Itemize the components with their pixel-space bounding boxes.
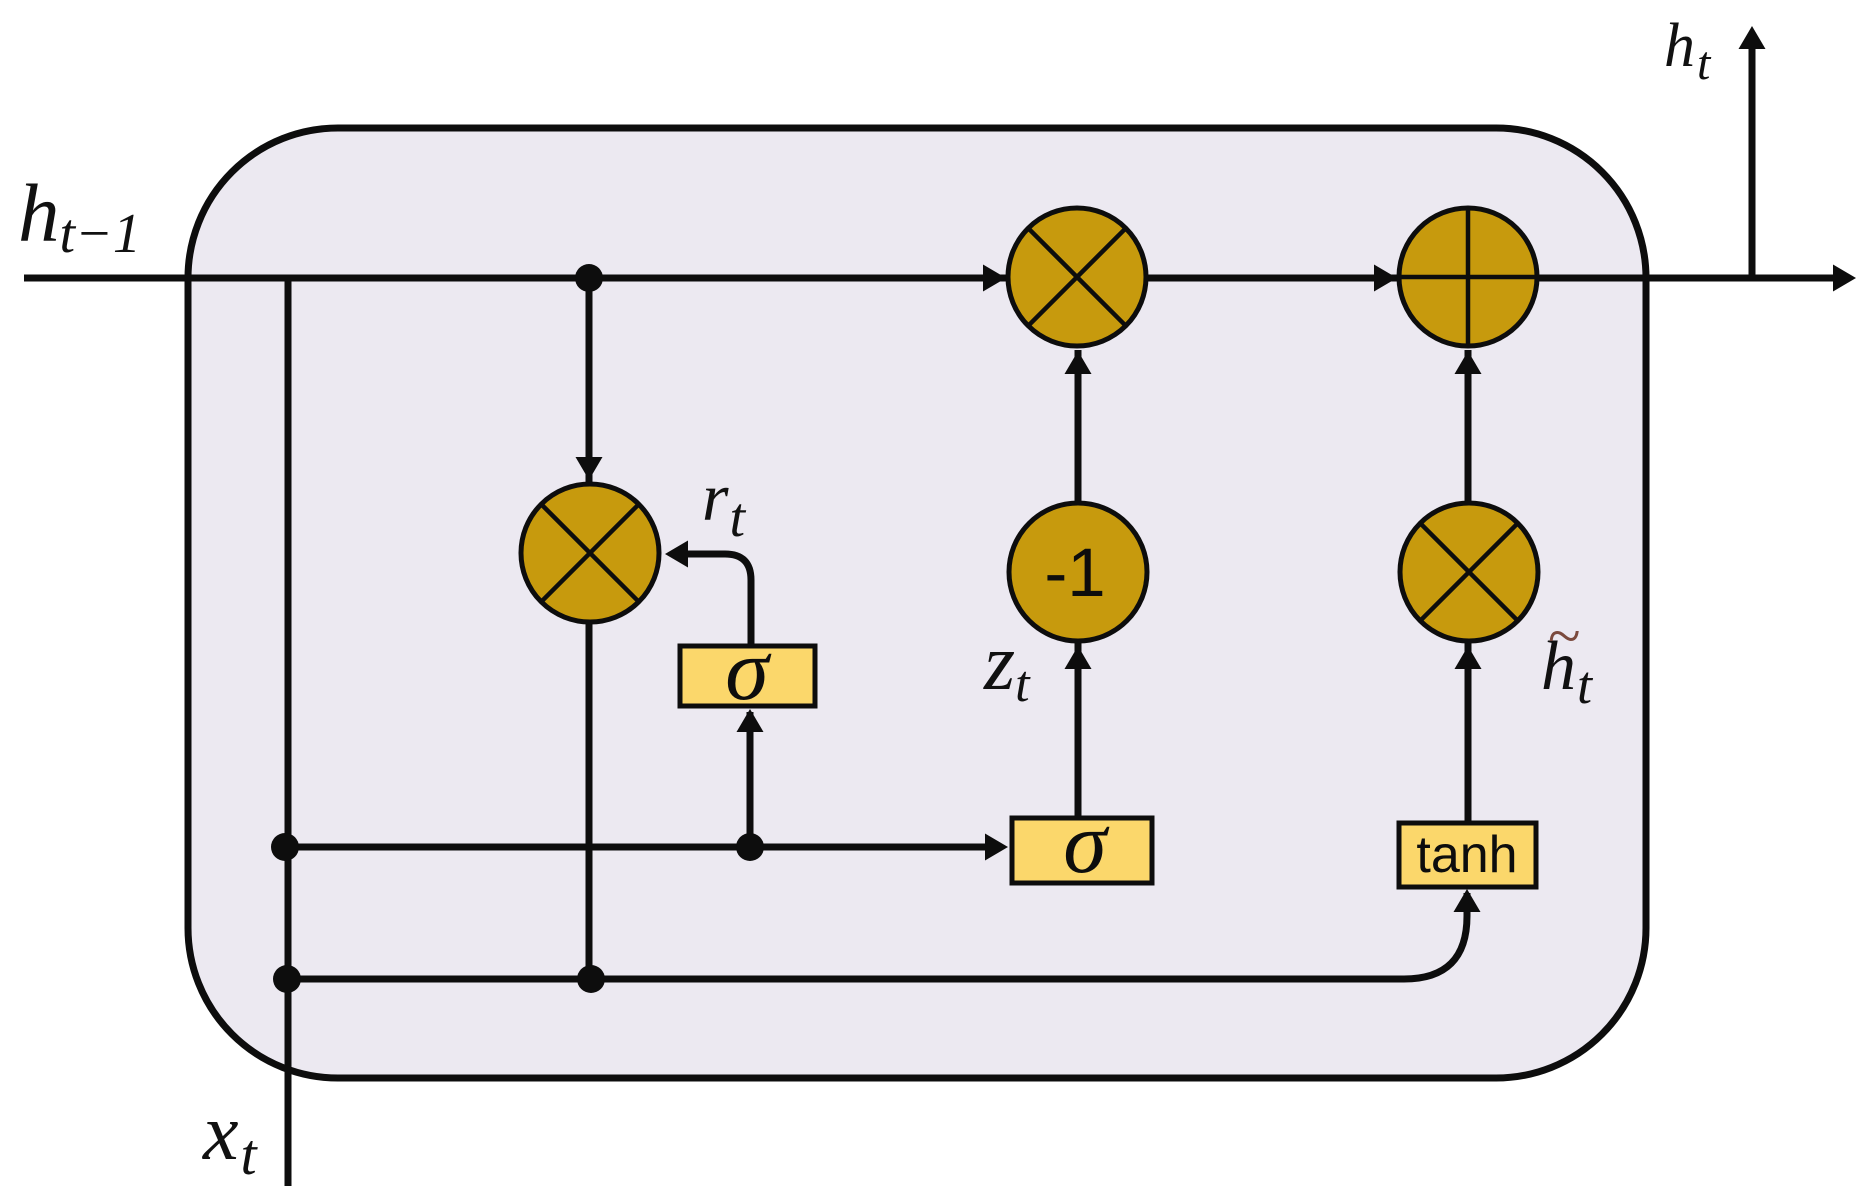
junction dot candidate bus at x(t) — [273, 965, 301, 993]
wire from tanh box up through candidate multiply node to add node — [1465, 350, 1472, 823]
GRU cell body (rounded container) — [188, 128, 1646, 1078]
top multiply node (update gate ⊗) — [1008, 208, 1146, 346]
wire gate bus y=847 from x(t) to sigma-z box — [285, 844, 986, 851]
arrowhead into reset-multiply node — [983, 265, 1006, 292]
arrowhead down into left multiply node — [576, 457, 603, 480]
arrowhead up into add node — [1455, 351, 1482, 374]
minus-one node — [1009, 503, 1147, 641]
arrowhead up into sigma-r box — [737, 709, 764, 732]
svg-text:-1: -1 — [1044, 534, 1105, 611]
svg-text:tanh: tanh — [1416, 826, 1517, 884]
arrowhead left into left multiply node — [665, 541, 688, 568]
wire r(t) loop from sigma-r box to left multiply node — [688, 554, 751, 646]
add node (⊕) — [1399, 208, 1537, 346]
sigma-z box — [1012, 795, 1152, 892]
svg-text:σ: σ — [725, 622, 772, 719]
wire from sigma-z box up through -1 node to top multiply node — [1075, 350, 1082, 818]
wire from h-line down to left multiply node and on to lower bus — [586, 278, 593, 979]
wire h(t-1) main horizontal line — [24, 275, 1835, 282]
arrowhead at right output end — [1833, 265, 1856, 292]
tanh box — [1399, 823, 1536, 887]
sigma-r box — [680, 622, 815, 719]
candidate multiply node (⊗ near h-tilde) — [1400, 503, 1538, 641]
svg-text:~: ~ — [1548, 603, 1580, 669]
arrowhead up at h(t) output — [1739, 26, 1766, 49]
left multiply node (reset gate ⊗) — [521, 484, 659, 622]
junction dot gate bus at sigma-r riser — [736, 833, 764, 861]
svg-text:σ: σ — [1063, 795, 1110, 892]
arrowhead into add node — [1374, 265, 1397, 292]
arrowhead up into -1 node — [1065, 646, 1092, 669]
junction dot on h-line — [575, 264, 603, 292]
arrowhead up into tanh box — [1454, 889, 1481, 912]
wire h(t) vertical output arrow — [1749, 48, 1756, 278]
junction dot gate bus at x(t) — [271, 833, 299, 861]
label h-tilde(t) — [1541, 603, 1594, 715]
wire candidate bus y=979 from x(t) curving up to tanh box — [287, 893, 1467, 979]
arrowhead up into top multiply node — [1065, 351, 1092, 374]
arrowhead up into candidate multiply node — [1455, 646, 1482, 669]
wire x(t) vertical input line — [285, 278, 292, 1186]
arrowhead right into sigma-z box — [985, 834, 1008, 861]
junction dot candidate bus at reset wire — [577, 965, 605, 993]
wire riser from gate bus up to sigma-r box — [747, 712, 754, 847]
